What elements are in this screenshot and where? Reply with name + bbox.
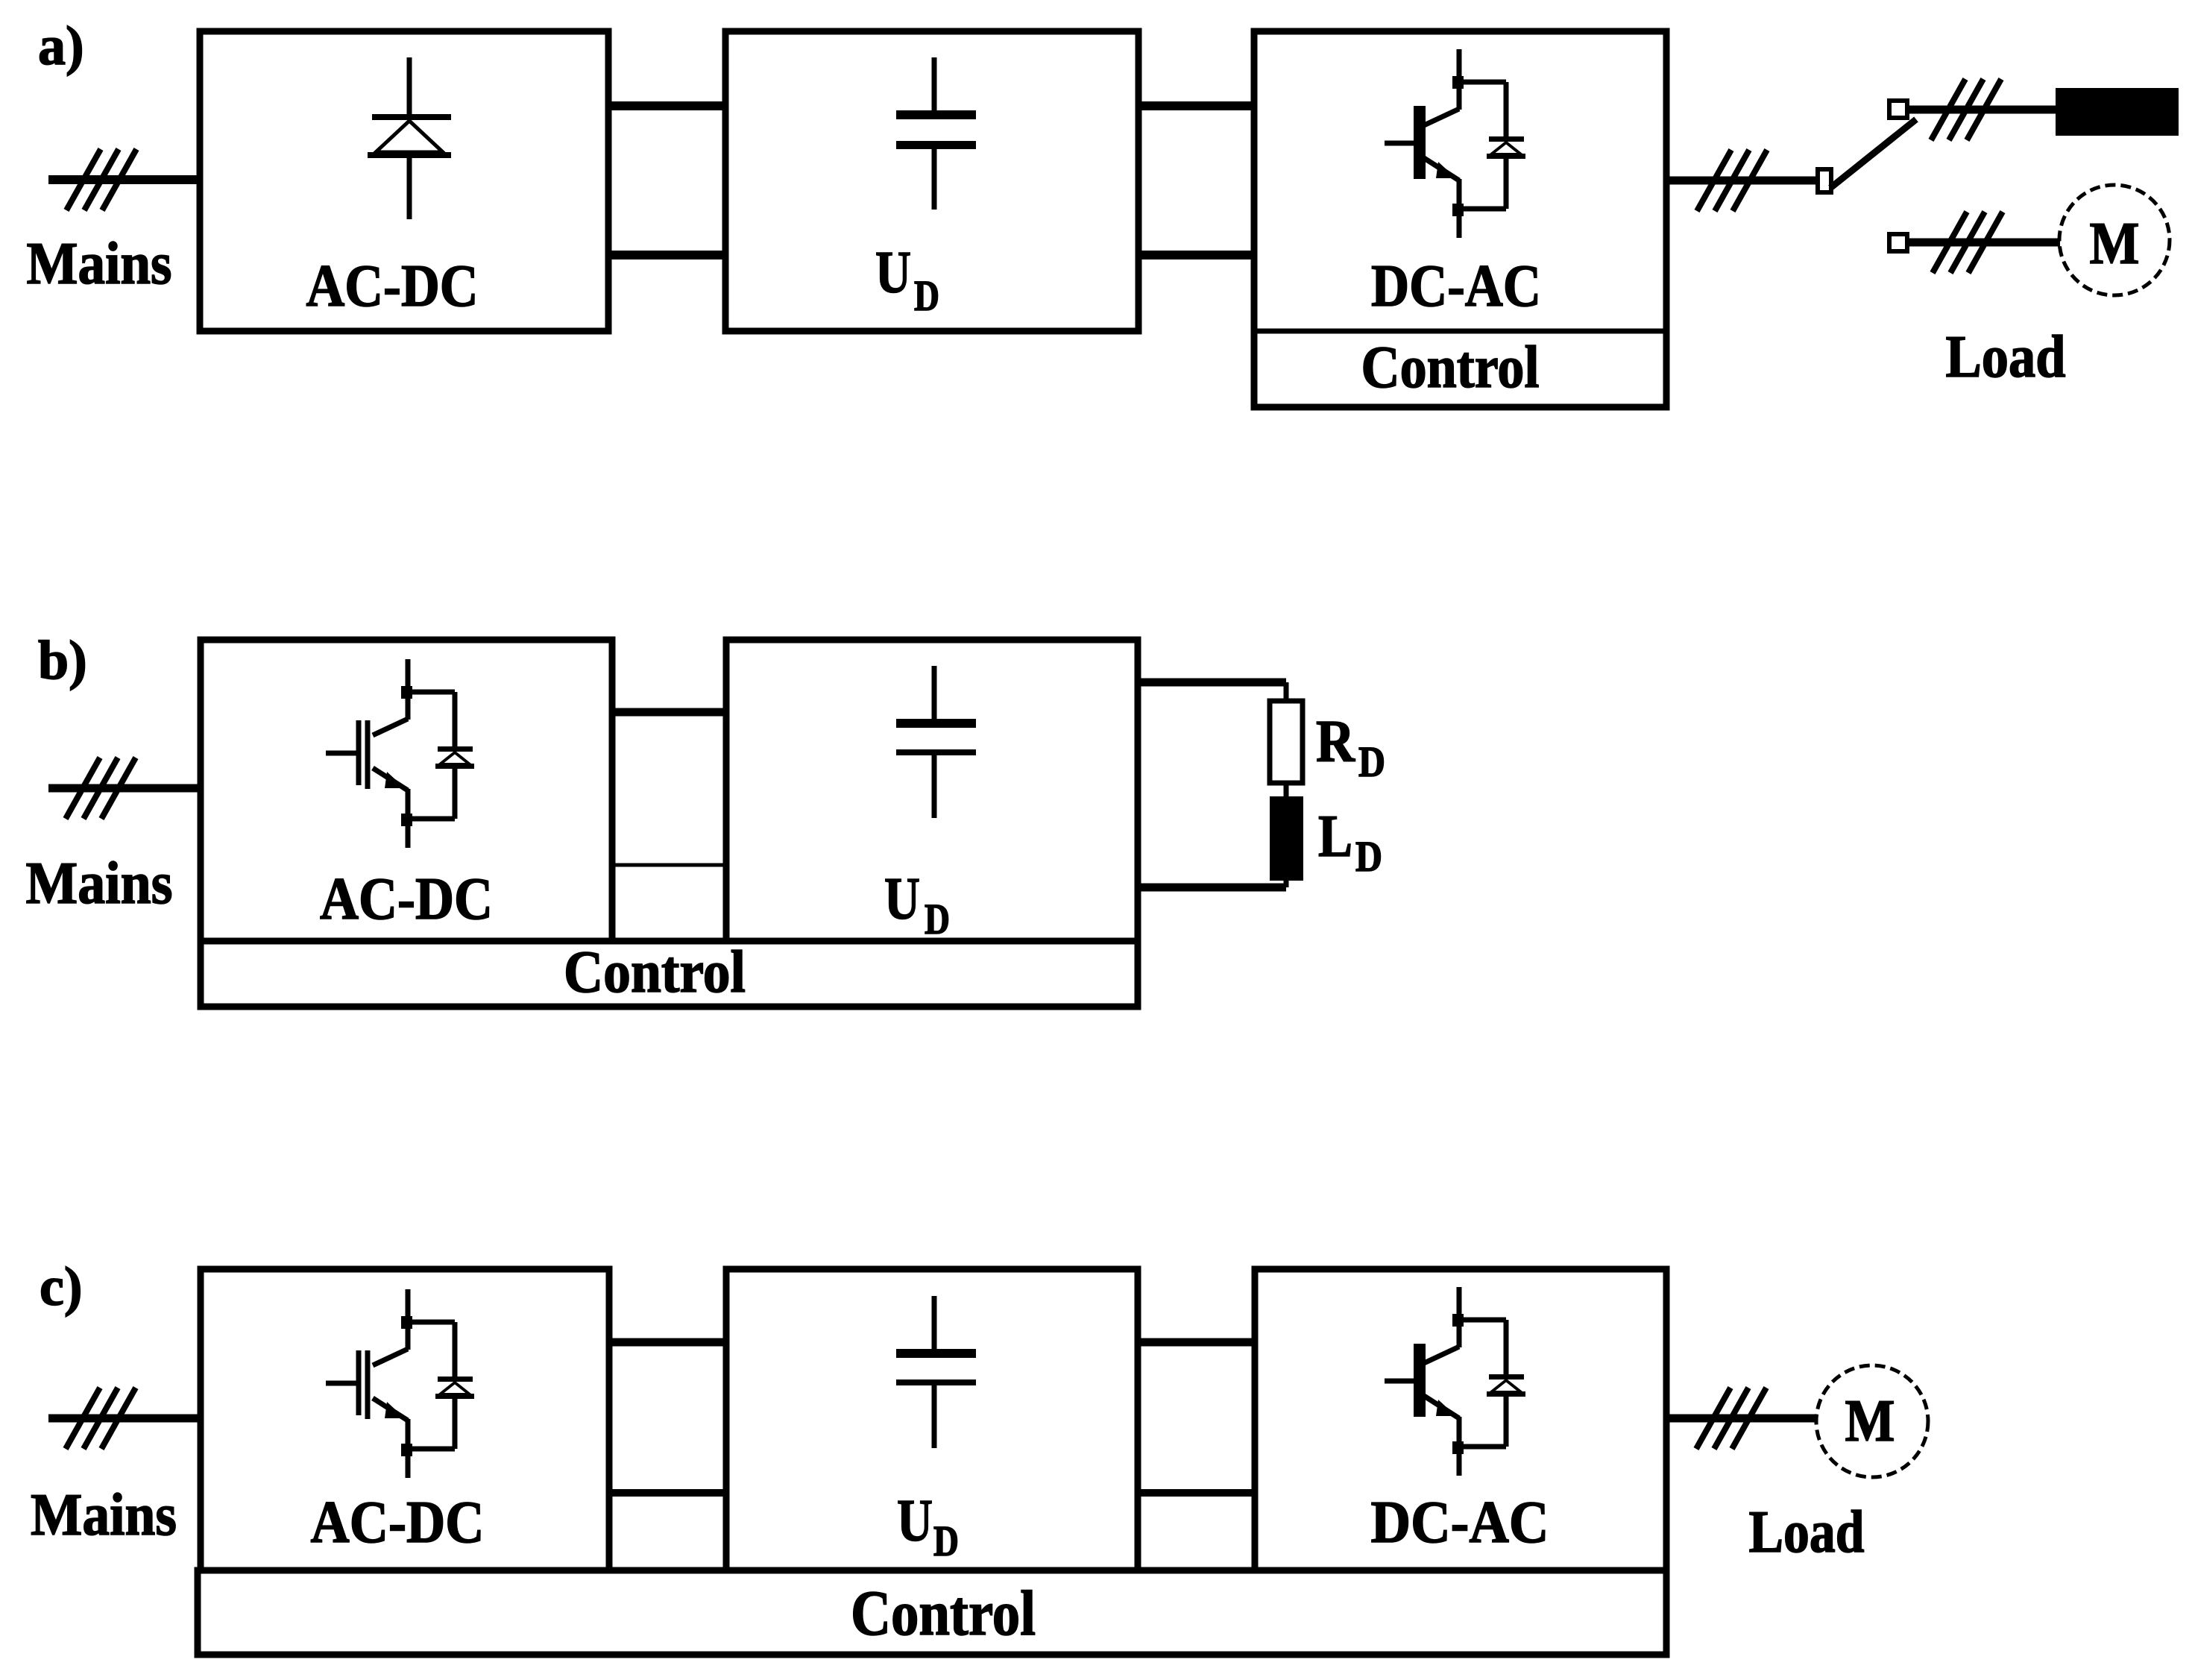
inductor LD (b) <box>1270 796 1303 881</box>
switch lower terminal (a) <box>1889 234 1907 251</box>
block AC-DC rectifier box (a) <box>200 31 608 331</box>
wire dc link bottom (c, UD to DC-AC) <box>1138 1489 1255 1497</box>
block DC-AC inverter box (c) <box>1255 1269 1666 1570</box>
wire mains input (c) <box>48 1415 203 1423</box>
svg-text:D: D <box>914 271 939 320</box>
wire to resistive load (a) <box>1907 106 2056 114</box>
transistor Q1 with diode (a DC-AC) <box>1385 49 1525 238</box>
block AC-DC active rectifier box (b) <box>201 640 612 941</box>
svg-text:Load: Load <box>1946 324 2066 390</box>
svg-text:D: D <box>933 1517 959 1565</box>
svg-text:b): b) <box>38 630 87 691</box>
wire dc link bottom (a, AC-DC to UD) <box>608 251 725 259</box>
svg-text:M: M <box>2090 211 2140 277</box>
block UD dc-link box (b) <box>726 640 1138 941</box>
resistive load block (a) <box>2056 88 2179 136</box>
wire bottom return to UD (b) <box>1138 884 1286 892</box>
block UD dc-link box (c) <box>726 1269 1138 1570</box>
motor M (c) <box>1816 1365 1928 1477</box>
svg-text:AC-DC: AC-DC <box>320 866 493 932</box>
svg-text:Mains: Mains <box>31 1482 177 1548</box>
wire dc link top (c, AC-DC to UD) <box>609 1338 726 1347</box>
3-phase hatch on output wire (a) <box>1697 150 1767 211</box>
diode D1 (a) <box>368 57 451 219</box>
svg-text:DC-AC: DC-AC <box>1371 254 1541 319</box>
svg-text:Control: Control <box>1361 335 1540 400</box>
3-phase hatch on mains wire (c) <box>66 1388 136 1449</box>
svg-text:Control: Control <box>564 940 746 1005</box>
wire UD output top to RD (b) <box>1138 679 1286 687</box>
block AC-DC active rectifier box (c) <box>201 1269 609 1570</box>
svg-text:M: M <box>1845 1388 1895 1454</box>
capacitor C3 (c) <box>896 1296 976 1448</box>
divider line above Control (a) <box>1254 329 1666 334</box>
svg-text:AC-DC: AC-DC <box>306 254 479 319</box>
wire to motor (a) <box>1907 239 2060 247</box>
svg-text:L: L <box>1318 804 1352 869</box>
wire dc link top (a, UD to DC-AC) <box>1138 101 1254 110</box>
switch S1 upper terminal (a) <box>1889 101 1907 118</box>
3-phase hatch on mains wire (a) <box>66 149 136 210</box>
svg-text:D: D <box>925 895 950 943</box>
capacitor C1 (a) <box>896 57 976 210</box>
wire dc link bottom thin (b) <box>612 863 726 867</box>
svg-text:D: D <box>1358 737 1385 786</box>
wire dc link bottom (a, UD to DC-AC) <box>1138 251 1254 259</box>
wire dc link top (a, AC-DC to UD) <box>608 101 725 110</box>
wire inverter output to motor (c) <box>1666 1415 1817 1423</box>
block UD dc-link box (a) <box>725 31 1138 331</box>
motor M (a) <box>2059 185 2170 295</box>
svg-text:D: D <box>1355 832 1382 881</box>
wire mains input (a) <box>48 175 203 184</box>
svg-text:U: U <box>897 1488 933 1554</box>
wire down to RD (b) <box>1284 682 1289 705</box>
svg-text:AC-DC: AC-DC <box>311 1490 485 1555</box>
wire dc link bottom (c, AC-DC to UD) <box>609 1489 726 1497</box>
wire dc link top (c, UD to DC-AC) <box>1138 1338 1255 1347</box>
svg-text:U: U <box>875 240 911 306</box>
wire inverter output (a) <box>1666 177 1820 185</box>
wire LD to bottom (b) <box>1284 878 1289 887</box>
svg-text:U: U <box>884 866 920 932</box>
switch S1 pivot terminal (a) <box>1818 169 1831 192</box>
IGBT Q3 with diode (c AC-DC) <box>326 1289 474 1478</box>
3-phase hatch on load wire (a) <box>1931 79 2001 140</box>
IGBT Q2 with diode (b AC-DC) <box>326 659 474 848</box>
wire dc link top (b) <box>612 708 726 717</box>
svg-text:Load: Load <box>1749 1500 1865 1565</box>
svg-text:Control: Control <box>851 1577 1036 1649</box>
svg-text:DC-AC: DC-AC <box>1371 1490 1549 1555</box>
wire mains input (b) <box>48 784 203 793</box>
3-phase hatch on mains wire (b) <box>66 758 136 819</box>
switch S1 blade (a) <box>1830 119 1916 188</box>
wire RD to LD (b) <box>1284 783 1289 798</box>
svg-text:a): a) <box>38 16 84 77</box>
3-phase hatch on motor wire (a) <box>1933 212 2003 273</box>
control box (b) <box>201 941 1138 1007</box>
block DC-AC inverter box with control section (a) <box>1254 31 1666 407</box>
capacitor C2 (b) <box>896 666 976 818</box>
svg-text:Mains: Mains <box>26 851 173 916</box>
3-phase hatch on output wire (c) <box>1696 1388 1766 1449</box>
resistor RD (b) <box>1270 701 1303 783</box>
control box spanning all blocks (c) <box>198 1570 1666 1655</box>
svg-text:Mains: Mains <box>27 231 172 297</box>
svg-text:R: R <box>1316 709 1355 775</box>
svg-text:c): c) <box>40 1256 83 1318</box>
transistor Q4 with diode (c DC-AC) <box>1385 1287 1525 1476</box>
